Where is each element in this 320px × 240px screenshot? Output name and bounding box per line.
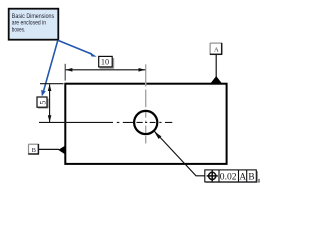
datum A filled triangle: [211, 76, 222, 83]
extension line left (for 10 dim): [64, 64, 66, 81]
datum B filled triangle: [58, 145, 66, 155]
leader from feature control frame to hole: [154, 131, 205, 176]
datum B leader line: [39, 148, 59, 150]
cell divider after symbol: [218, 170, 220, 182]
text cursor artifact: [258, 179, 259, 183]
svg-text:B: B: [32, 147, 37, 154]
datum B box: [28, 144, 39, 154]
5 dimension line with arrows: [48, 84, 52, 122]
cell divider after datum A: [246, 170, 248, 182]
svg-text:0.02: 0.02: [220, 172, 237, 183]
basic dim 5 box: [37, 97, 48, 108]
svg-text:5: 5: [38, 101, 47, 105]
horizontal center line (black dash-dot): [39, 121, 172, 123]
position symbol: [207, 170, 218, 181]
basic dim 10 box: [99, 56, 114, 68]
svg-text:A: A: [239, 173, 246, 183]
svg-text:B: B: [248, 173, 254, 183]
10 dimension line with arrows: [66, 68, 146, 72]
hole circle: [134, 111, 157, 134]
svg-text:boxes.: boxes.: [12, 26, 26, 33]
callout arrow to 10 box: [58, 40, 97, 57]
feature control frame: [205, 170, 258, 183]
svg-text:A: A: [214, 46, 219, 53]
top edge extension (for 5 dim): [40, 83, 64, 85]
part outline rectangle: [65, 84, 226, 164]
callout note box: [9, 9, 59, 40]
cell divider after tolerance: [238, 170, 240, 182]
svg-text:10: 10: [101, 58, 109, 67]
callout arrow to 5 box: [41, 40, 58, 96]
datum A box: [210, 43, 222, 55]
datum A leader line: [215, 55, 217, 78]
extension line / vertical center line (grey): [145, 64, 147, 143]
